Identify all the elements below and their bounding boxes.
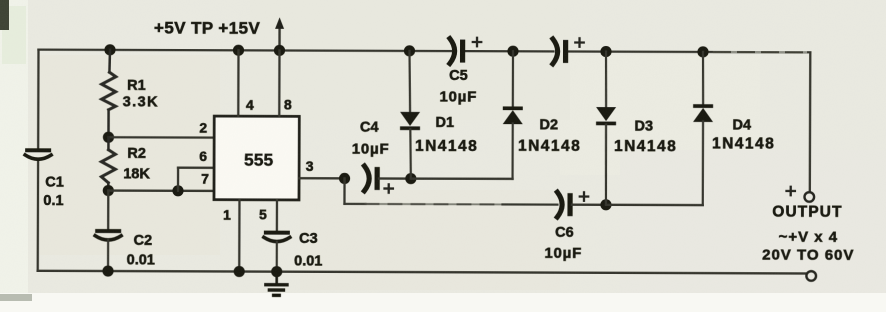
node: junction top rail / D4 cathode bbox=[697, 46, 708, 57]
wire: pin 6 horizontal bbox=[178, 167, 214, 169]
capacitor C2 bbox=[95, 229, 121, 271]
node: junction bottom rail / C2 bbox=[102, 265, 113, 276]
label: C5 bbox=[449, 68, 468, 84]
wire: node A to D2 anode bbox=[411, 177, 513, 180]
label: + of C7 bbox=[575, 38, 583, 46]
wire: top rail right segment to output corner (partly faded scan) bbox=[568, 50, 810, 53]
label: + of C5 bbox=[473, 38, 481, 46]
label: R2 bbox=[127, 146, 146, 162]
node: junction top rail / D1 anode bbox=[404, 45, 415, 56]
diode D2 bbox=[503, 51, 523, 179]
diode D4 bbox=[693, 52, 714, 205]
wire: pin 5 to C3 bbox=[276, 200, 278, 231]
pin label 4 bbox=[246, 97, 254, 113]
pin label 2 bbox=[199, 119, 207, 135]
label: C2 bbox=[134, 233, 153, 249]
label: 1N4148 D3 bbox=[614, 138, 677, 155]
wire: drop from pin3 node to lower pump rail bbox=[343, 178, 345, 203]
capacitor C3 bbox=[264, 231, 290, 272]
node: junction pin6/pin7 tie bbox=[172, 185, 183, 196]
node: junction bottom rail / pin1 bbox=[234, 266, 245, 277]
wire: top +15V rail left segment bbox=[39, 50, 451, 51]
label: D3 bbox=[634, 118, 653, 134]
output terminal minus circle bbox=[806, 271, 816, 281]
pin label 8 bbox=[284, 96, 292, 112]
wire: pin 4 vertical bbox=[237, 50, 240, 116]
capacitor C5 bbox=[450, 39, 465, 64]
label: +5V TP +15V bbox=[154, 18, 260, 37]
label: C3 bbox=[299, 231, 318, 247]
node: junction C4 / D1 cathode / D2 anode bbox=[405, 173, 416, 184]
wire: C2 top lead bbox=[107, 191, 109, 230]
pin label 1 bbox=[223, 206, 231, 222]
wire: node B rail to D4 bbox=[606, 204, 703, 207]
label: 18K bbox=[123, 166, 150, 182]
node: junction top rail / pin8 wire + arrow bbox=[274, 45, 285, 56]
wire: pin 8 vertical bbox=[278, 50, 281, 116]
label: 3.3K bbox=[123, 94, 159, 110]
resistor R2 bbox=[101, 137, 115, 190]
node: junction top rail / D3 anode bbox=[600, 46, 611, 57]
wire: bottom ground rail bbox=[38, 271, 806, 274]
label: C1 bbox=[45, 174, 64, 190]
wire: pin 1 to bottom rail bbox=[238, 200, 241, 272]
node: junction R2 bottom / pin7 wire / C2 bbox=[103, 185, 114, 196]
label: 10uF C5 bbox=[439, 89, 477, 106]
node: junction bottom rail / C3 / ground bbox=[271, 266, 282, 277]
label: C6 bbox=[555, 225, 574, 241]
label: 1N4148 D2 bbox=[518, 138, 581, 155]
label: OUTPUT bbox=[772, 204, 842, 221]
pin label 5 bbox=[259, 206, 267, 222]
wire: left vertical branch lower (C1 to bottom rail) bbox=[37, 160, 40, 271]
label: D1 bbox=[435, 115, 454, 131]
supply arrow up (+15V) bbox=[275, 17, 284, 50]
label: + of output bbox=[786, 187, 794, 195]
capacitor C6 bbox=[557, 192, 572, 217]
node: junction top rail / pin4 wire bbox=[233, 45, 244, 56]
node: junction C6 / D3 cathode bbox=[600, 199, 611, 210]
label: 0.01 C2 bbox=[127, 252, 155, 268]
node: junction pin3 / C4 / C6 drop bbox=[339, 173, 350, 184]
label: C4 bbox=[360, 120, 379, 136]
label: 10uF C4 bbox=[352, 141, 390, 158]
label: + of C6 bbox=[580, 192, 588, 200]
label: 20V TO 60V bbox=[762, 247, 854, 264]
node: junction top rail / D2 cathode bbox=[507, 46, 518, 57]
wire: pin6-pin7 vertical tie bbox=[177, 168, 179, 191]
capacitor C4 bbox=[364, 166, 379, 191]
op-amp? no: IC U1 555 timer box bbox=[214, 116, 299, 200]
label: ~+V x 4 bbox=[779, 229, 839, 246]
pin label 3 bbox=[306, 158, 314, 174]
label: D4 bbox=[732, 117, 751, 133]
pin label 6 bbox=[199, 148, 207, 164]
label: R1 bbox=[127, 78, 146, 94]
resistor R1 bbox=[101, 50, 116, 137]
ground symbol bbox=[264, 272, 289, 297]
label: 10uF C6 bbox=[544, 245, 582, 262]
wire: C4 to node A bbox=[379, 177, 411, 179]
output terminal + circle bbox=[804, 192, 814, 202]
wire: lower pump rail to C6 (partly faded scan) bbox=[344, 203, 557, 206]
label: 0.01 C3 bbox=[294, 253, 322, 269]
label: 0.1 bbox=[43, 193, 63, 209]
wire: left vertical branch upper (rail to C1) bbox=[37, 50, 40, 150]
wire: pin 2 to R1-R2 junction bbox=[108, 136, 214, 139]
wire: pin 3 output bbox=[299, 177, 344, 179]
label: 1N4148 D4 bbox=[712, 136, 775, 153]
wire: pin 7 horizontal bbox=[108, 189, 214, 192]
pin label 7 bbox=[201, 170, 209, 186]
wire: C6 to node B bbox=[572, 204, 606, 206]
node: junction top rail / left branch + R1 bbox=[104, 44, 115, 55]
diode D1 bbox=[400, 51, 420, 179]
node: junction R1/R2/pin2 bbox=[103, 132, 114, 143]
diode D3 bbox=[596, 52, 617, 205]
label: 1N4148 D1 bbox=[415, 138, 478, 155]
wire: output drop from top rail corner bbox=[809, 52, 812, 192]
label: D2 bbox=[539, 117, 558, 133]
capacitor C7 (unlabeled top cap) bbox=[553, 39, 568, 64]
wire: top rail between C5 and C7 bbox=[465, 50, 553, 53]
label: + of C4 bbox=[385, 184, 393, 192]
capacitor C1 bbox=[25, 148, 51, 159]
